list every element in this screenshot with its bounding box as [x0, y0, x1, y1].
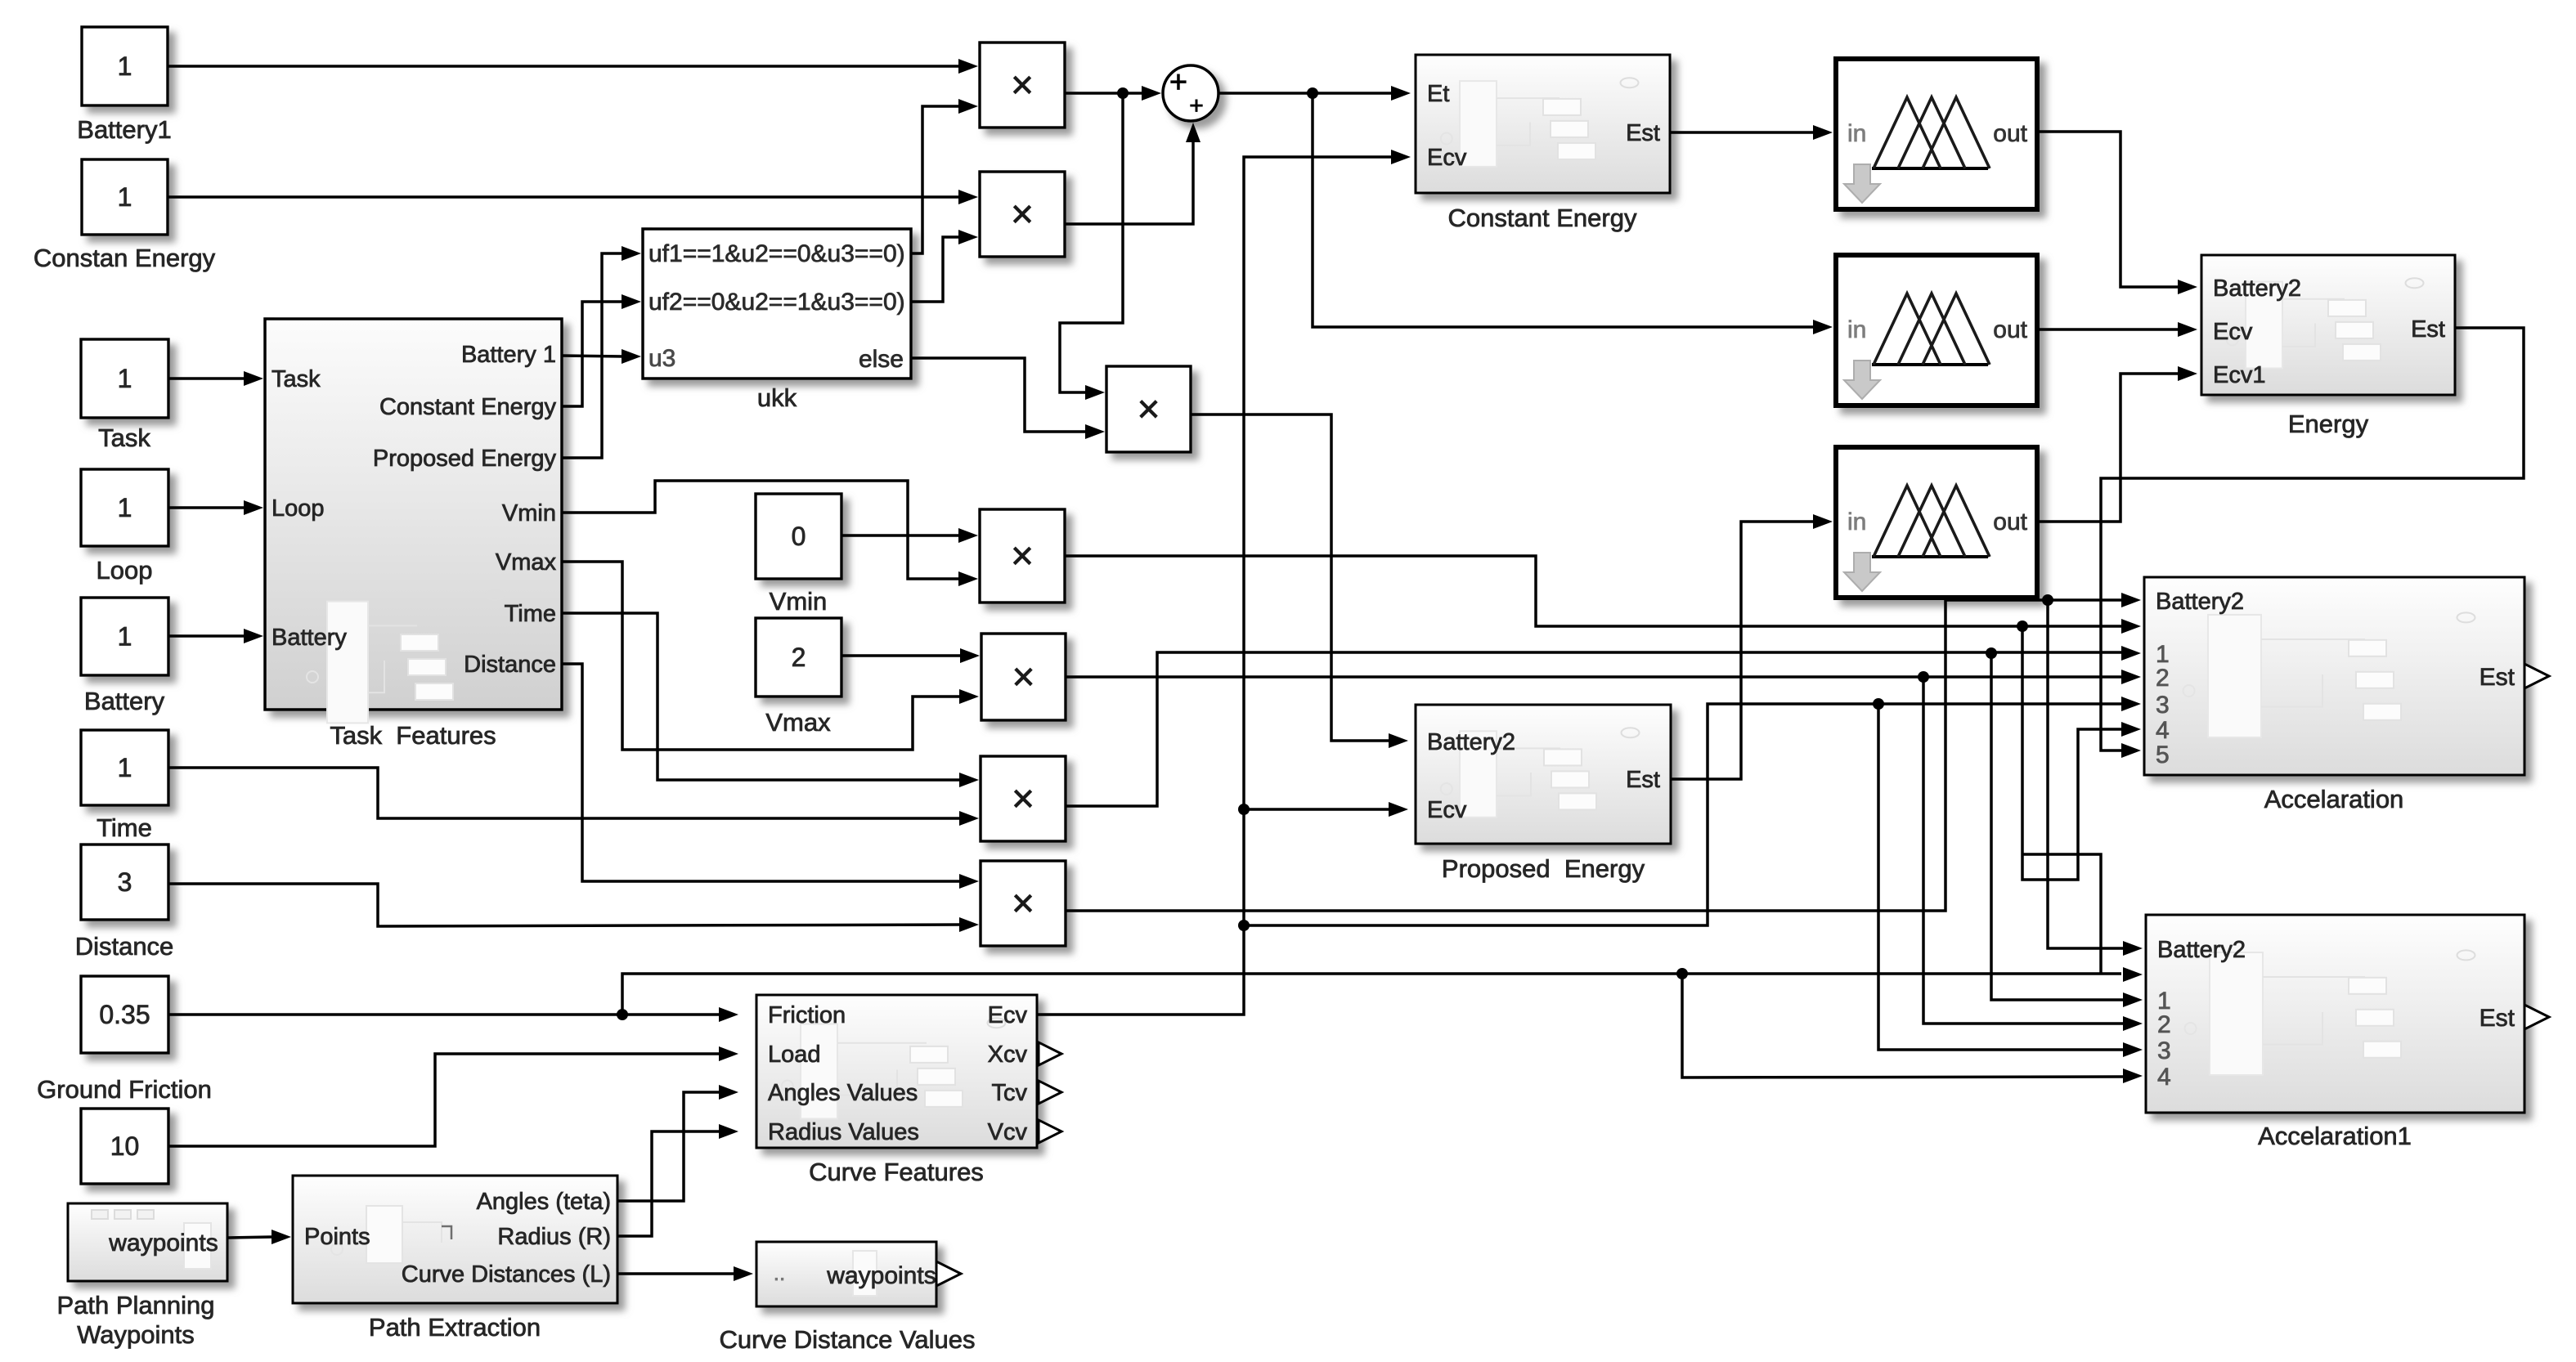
svg-text:Time: Time: [505, 601, 556, 627]
svg-text:+: +: [1189, 92, 1204, 119]
svg-text:Battery2: Battery2: [1427, 729, 1515, 755]
svg-text:Battery 1: Battery 1: [461, 342, 556, 368]
svg-text:Et: Et: [1427, 81, 1449, 107]
svg-text:Task Features: Task Features: [330, 721, 496, 750]
svg-text:uf1==1&u2==0&u3==0): uf1==1&u2==0&u3==0): [648, 240, 905, 267]
svg-text:out: out: [1993, 120, 2027, 147]
svg-text:Task: Task: [272, 366, 321, 392]
svg-text:1: 1: [118, 52, 132, 81]
svg-text:1: 1: [118, 364, 132, 393]
svg-text:×: ×: [1011, 64, 1034, 107]
svg-text:Angles (teta): Angles (teta): [477, 1189, 611, 1215]
svg-text:Time: Time: [96, 813, 152, 842]
svg-text:×: ×: [1137, 388, 1160, 432]
svg-text:0: 0: [792, 522, 806, 551]
svg-text:Est: Est: [2411, 316, 2445, 343]
svg-text:Radius Values: Radius Values: [768, 1119, 919, 1145]
svg-text:2: 2: [2157, 1011, 2171, 1038]
svg-text:1: 1: [118, 622, 132, 652]
svg-text:×: ×: [1012, 882, 1034, 925]
svg-text:Est: Est: [1626, 120, 1660, 146]
svg-text:Battery2: Battery2: [2156, 589, 2244, 615]
svg-text:waypoints: waypoints: [108, 1230, 218, 1257]
svg-text:Waypoints: Waypoints: [77, 1320, 195, 1349]
svg-text:Battery: Battery: [272, 625, 347, 651]
svg-text:Path Planning: Path Planning: [56, 1291, 214, 1319]
svg-text:Est: Est: [1626, 767, 1660, 793]
svg-text:Battery2: Battery2: [2157, 937, 2246, 963]
svg-text:uf2==0&u2==1&u3==0): uf2==0&u2==1&u3==0): [648, 289, 905, 316]
svg-text:Curve Features: Curve Features: [809, 1158, 984, 1186]
svg-text:Radius (R): Radius (R): [497, 1224, 611, 1250]
svg-text:5: 5: [2156, 741, 2170, 768]
svg-text:Load: Load: [768, 1042, 821, 1068]
svg-text:Tcv: Tcv: [992, 1080, 1028, 1106]
svg-text:Distance: Distance: [75, 932, 174, 961]
svg-text:Vmax: Vmax: [496, 549, 557, 576]
svg-text:Ecv: Ecv: [2213, 319, 2253, 345]
svg-text:4: 4: [2156, 717, 2170, 744]
svg-text:ukk: ukk: [757, 383, 797, 412]
svg-text:Ecv1: Ecv1: [2213, 362, 2265, 388]
svg-text:Angles Values: Angles Values: [768, 1080, 918, 1106]
svg-text:2: 2: [792, 643, 806, 672]
svg-text:Task: Task: [98, 423, 150, 452]
svg-text:Path Extraction: Path Extraction: [369, 1313, 541, 1342]
svg-text:Ecv: Ecv: [1427, 797, 1467, 823]
svg-text:Est: Est: [2480, 664, 2515, 691]
svg-text:else: else: [859, 346, 904, 373]
svg-text:×: ×: [1011, 535, 1034, 578]
svg-text:waypoints: waypoints: [826, 1262, 936, 1289]
svg-text:1: 1: [118, 182, 132, 212]
svg-text:Battery: Battery: [84, 687, 165, 715]
svg-text:in: in: [1847, 316, 1866, 343]
svg-text:Ground Friction: Ground Friction: [37, 1075, 212, 1104]
svg-text:Proposed Energy: Proposed Energy: [1442, 854, 1645, 883]
svg-text:Energy: Energy: [2288, 410, 2369, 438]
svg-text:3: 3: [2157, 1037, 2171, 1064]
svg-text:Distance: Distance: [464, 652, 556, 678]
svg-text:Accelaration: Accelaration: [2264, 785, 2404, 813]
svg-text:2: 2: [2156, 665, 2170, 692]
svg-text:1: 1: [118, 753, 132, 782]
svg-text:×: ×: [1011, 193, 1034, 236]
svg-text:Est: Est: [2480, 1005, 2515, 1032]
svg-text:Points: Points: [304, 1224, 370, 1250]
svg-text:Curve Distance Values: Curve Distance Values: [719, 1325, 975, 1354]
svg-text:4: 4: [2157, 1064, 2171, 1091]
svg-text:in: in: [1847, 509, 1866, 535]
svg-text:Vmax: Vmax: [765, 708, 831, 737]
svg-text:Loop: Loop: [96, 556, 153, 585]
svg-text:Ecv: Ecv: [988, 1002, 1028, 1028]
svg-text:×: ×: [1012, 777, 1034, 821]
svg-text:out: out: [1993, 316, 2027, 343]
svg-text:Ecv: Ecv: [1427, 145, 1467, 171]
svg-text:Constant Energy: Constant Energy: [1448, 204, 1637, 232]
svg-text:Xcv: Xcv: [988, 1042, 1028, 1068]
svg-text:in: in: [1847, 120, 1866, 147]
svg-text:Battery2: Battery2: [2213, 276, 2301, 302]
svg-text:3: 3: [2156, 692, 2170, 719]
svg-text:×: ×: [1012, 656, 1034, 699]
svg-text:Vcv: Vcv: [988, 1119, 1028, 1145]
svg-text:Friction: Friction: [768, 1002, 846, 1028]
svg-text:Vmin: Vmin: [502, 500, 556, 526]
svg-text:Constan Energy: Constan Energy: [34, 244, 216, 272]
svg-text:..: ..: [774, 1261, 785, 1285]
svg-text:1: 1: [118, 493, 132, 522]
svg-text:3: 3: [118, 867, 132, 897]
svg-text:+: +: [1169, 65, 1187, 100]
svg-text:u3: u3: [648, 345, 675, 372]
svg-text:out: out: [1993, 509, 2027, 535]
svg-text:Curve Distances (L): Curve Distances (L): [402, 1261, 611, 1288]
svg-text:Accelaration1: Accelaration1: [2258, 1122, 2412, 1150]
svg-text:Proposed Energy: Proposed Energy: [373, 446, 557, 472]
svg-text:Battery1: Battery1: [77, 115, 171, 144]
svg-text:10: 10: [110, 1131, 140, 1161]
svg-text:Vmin: Vmin: [770, 587, 828, 616]
svg-text:0.35: 0.35: [99, 1000, 150, 1029]
svg-text:Loop: Loop: [272, 495, 325, 522]
svg-text:Constant Energy: Constant Energy: [379, 394, 557, 420]
